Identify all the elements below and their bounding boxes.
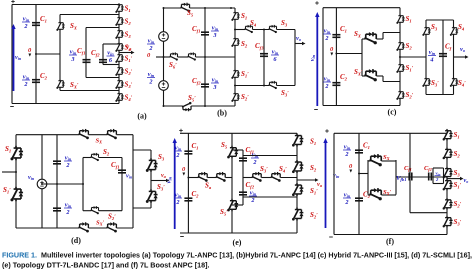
svg-text:vin: vin [65,154,72,161]
svg-text:vin: vin [344,191,351,198]
svg-text:vin: vin [250,189,257,196]
svg-text:2: 2 [324,35,328,42]
svg-text:3: 3 [70,56,74,63]
svg-text:(b): (b) [217,109,227,118]
svg-text:2: 2 [344,151,348,158]
svg-text:vin: vin [175,191,182,198]
svg-text:3: 3 [212,84,216,91]
svg-text:Vfb1: Vfb1 [396,175,407,182]
svg-text:vin: vin [148,71,155,78]
svg-text:2: 2 [65,162,69,169]
svg-text:vin: vin [272,48,279,55]
svg-text:vin: vin [324,75,331,82]
svg-text:vin: vin [107,49,114,56]
svg-text:vin: vin [309,54,316,61]
svg-text:vin: vin [429,49,436,56]
svg-text:(f): (f) [386,237,394,246]
svg-text:2: 2 [252,159,256,166]
svg-text:vin: vin [175,144,182,151]
svg-text:vin: vin [23,73,30,80]
svg-text:vin: vin [344,143,351,150]
svg-text:vin: vin [23,15,30,22]
svg-text:vin: vin [212,24,219,31]
svg-text:2: 2 [175,152,179,159]
svg-text:vin: vin [166,176,173,183]
svg-text:2: 2 [324,83,328,90]
svg-text:3: 3 [212,32,216,39]
svg-text:vin: vin [252,151,259,158]
svg-text:(e): (e) [233,238,242,247]
svg-text:2: 2 [250,197,254,204]
svg-text:4: 4 [429,57,433,64]
svg-text:vin: vin [70,48,77,55]
svg-text:(c): (c) [388,108,397,117]
svg-text:vin: vin [65,201,72,208]
svg-text:2: 2 [148,79,152,86]
svg-text:(d): (d) [71,236,81,245]
svg-text:2: 2 [23,23,27,30]
svg-text:2: 2 [65,209,69,216]
svg-text:2: 2 [23,81,27,88]
svg-text:vin: vin [324,27,331,34]
svg-text:2: 2 [175,199,179,206]
svg-text:vin: vin [212,76,219,83]
svg-text:vin: vin [148,37,155,44]
svg-text:FIGURE 1. Multilevel inverter: FIGURE 1. Multilevel inverter topologies… [2,251,472,260]
svg-text:(a): (a) [137,112,147,121]
svg-text:(e) Topology DTT-7L-BANDC [17]: (e) Topology DTT-7L-BANDC [17] and (f) 7… [2,261,210,270]
svg-text:2: 2 [344,199,348,206]
